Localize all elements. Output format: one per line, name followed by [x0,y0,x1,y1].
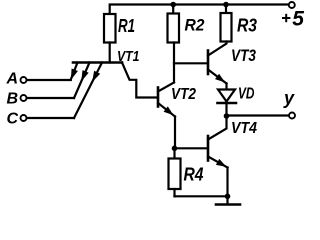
VT4 emitter [208,157,228,168]
ground [226,196,228,204]
resistor R4 [169,159,181,190]
svg-text:5: 5 [292,7,304,30]
wire VT1 collector to VT2 base [122,63,157,98]
wire VT4 emitter down [226,168,228,197]
svg-text:VT2: VT2 [171,86,196,103]
wire R1 to VT1 base [109,43,111,63]
node R4-base junction [172,146,178,152]
resistor R2 [168,14,180,43]
svg-text:y: y [283,88,295,108]
svg-text:A: A [6,71,19,88]
transistor VT4 base bar [207,136,210,161]
svg-text:R3: R3 [237,16,257,36]
wire rail to R3 [225,5,227,14]
diode VD [218,90,235,102]
svg-text:C: C [7,111,19,128]
terminal +5 [289,2,295,8]
wire VT3 base lead [174,62,207,64]
svg-text:R1: R1 [118,16,135,36]
VT3 emitter [208,70,227,84]
wire input A [27,79,71,81]
VT3 collector [208,42,227,56]
svg-text:VT4: VT4 [231,120,257,137]
wire rail to R2 [172,5,174,14]
terminal input C [21,115,27,121]
wire VT3 emitter to diode [225,84,227,117]
transistor VT2 base bar [157,88,160,107]
VT1 emitter 3 [74,63,102,119]
resistor R1 [104,14,116,43]
node R2-rail junction [170,2,176,8]
wire input C [27,117,74,119]
VT2 emitter [158,103,175,117]
svg-text:R4: R4 [184,165,204,185]
terminal output y [289,113,295,119]
wire VT4 collector [208,116,227,140]
wire VT2 emitter down to R4 node [174,117,176,149]
node R3-rail junction [223,2,229,8]
terminal input B [21,95,27,101]
VT2 collector [158,83,174,92]
wire R2 to VT2 collector / VT3 base node [173,43,175,83]
terminal input A [21,77,27,83]
resistor R3 [221,13,232,42]
wire input B [27,97,74,99]
wire output [227,114,289,116]
svg-text:B: B [7,91,19,108]
wire node to R4 [173,148,175,158]
svg-text:R2: R2 [185,16,205,35]
svg-text:VD: VD [238,86,255,103]
wire +5 rail [110,5,289,15]
transistor VT3 base bar [207,51,210,75]
VT1 emitter 2 [74,63,90,99]
VT1 emitter 1 [71,63,78,80]
node diode-output junction [224,113,230,119]
wire VT4 base lead [175,147,208,149]
wire bottom rail [175,195,228,197]
transistor VT1 (multi-emitter) base bar [73,61,122,64]
svg-text:VT1: VT1 [117,48,140,65]
wire R4 bottom [173,189,175,196]
node ground junction [225,194,231,200]
svg-text:VT3: VT3 [231,47,256,65]
